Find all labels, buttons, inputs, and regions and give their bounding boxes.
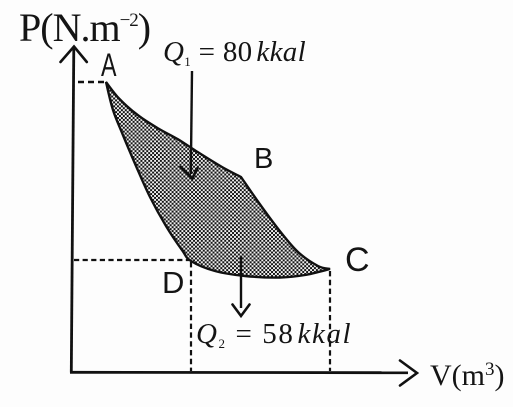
svg-text:B: B — [254, 143, 273, 175]
svg-text:D: D — [162, 265, 184, 300]
svg-text:Q2 = 58kkal: Q2 = 58kkal — [196, 318, 352, 351]
svg-text:Q1 = 80kkal: Q1 = 80kkal — [163, 36, 306, 69]
svg-text:P(N.m−2): P(N.m−2) — [19, 5, 150, 50]
svg-text:A: A — [101, 47, 117, 83]
svg-text:V(m3): V(m3) — [430, 359, 505, 392]
svg-text:C: C — [345, 241, 370, 279]
